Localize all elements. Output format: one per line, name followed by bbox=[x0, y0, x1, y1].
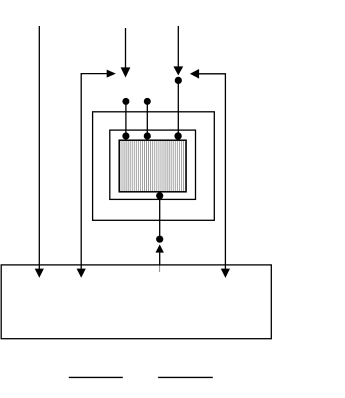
arrowhead: pointing up at dot bbox=[156, 244, 164, 252]
wire: second line (down into bottom box, branch right with arrow) bbox=[81, 74, 107, 270]
arrowhead: pointing right at top of second line bbox=[107, 70, 116, 78]
arrowhead: feedback line into bottom box bbox=[221, 269, 230, 278]
wire: top middle arrow bbox=[125, 28, 127, 69]
node dot: left pin on block bbox=[122, 132, 129, 139]
arrowhead: right input down arrow bbox=[173, 66, 183, 75]
inner box (rect B) bbox=[110, 130, 196, 199]
wire: thin gray stub inside bottom box bbox=[159, 265, 161, 272]
wire: left pin stub bbox=[125, 101, 127, 135]
outer box (rect A) bbox=[93, 112, 215, 221]
arrowhead: left input into bottom box bbox=[35, 269, 44, 278]
arrowhead: pointing left toward right input line bbox=[190, 69, 199, 79]
wire: right feedback line (left arrow, corner, down into bottom box) bbox=[199, 74, 226, 270]
wire: below up-arrow to bottom box bbox=[159, 253, 161, 265]
wire: middle pin stub bbox=[146, 101, 148, 135]
node dot: left pin top bbox=[122, 98, 129, 105]
junction dot below right arrowhead bbox=[175, 77, 182, 84]
node dot: right pin on block bbox=[174, 132, 181, 139]
label underline right bbox=[158, 376, 213, 378]
node dot: above up-arrow bbox=[156, 236, 163, 243]
wire: right input line continues down to block bbox=[177, 80, 179, 135]
label underline left bbox=[69, 376, 123, 378]
wire: left input vertical line bbox=[38, 26, 40, 270]
arrowhead: top middle arrow bbox=[121, 67, 131, 77]
wire: right input vertical line upper part bbox=[177, 26, 179, 67]
hatched block bbox=[119, 140, 186, 192]
wire: from block bottom down bbox=[159, 192, 161, 239]
node dot: block bottom port bbox=[156, 192, 163, 199]
node dot: middle pin top bbox=[144, 98, 151, 105]
node dot: middle pin on block bbox=[144, 132, 151, 139]
bottom rectangle bbox=[1, 265, 271, 339]
arrowhead: second line into bottom box bbox=[77, 269, 86, 278]
